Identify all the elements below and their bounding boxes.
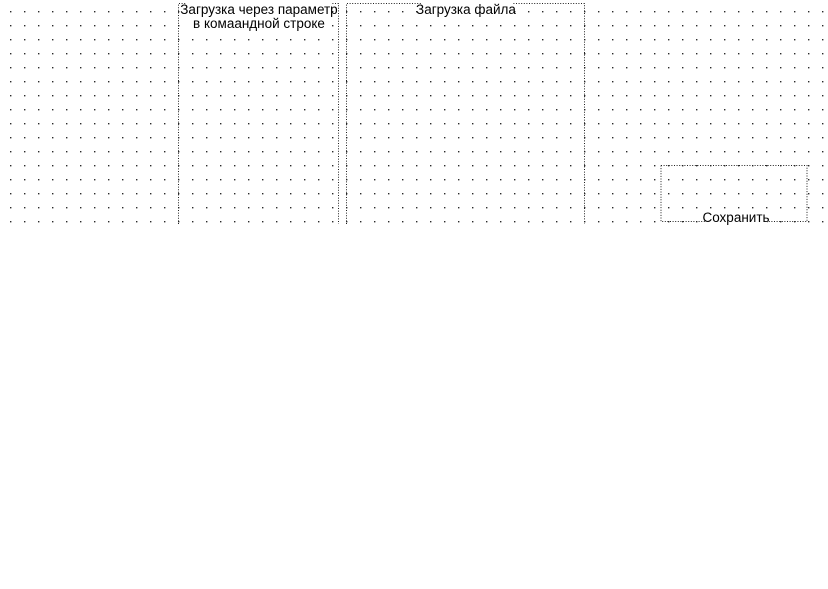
dashed group box 1 [179,1,339,224]
svg-text:в комаандной строке: в комаандной строке [193,16,325,31]
svg-text:Сохранить: Сохранить [702,210,769,225]
dashed group box 2 [347,1,585,224]
dashed group box "Сохранить" [661,166,807,225]
dotted grid of schema editor (top area) [0,0,828,224]
svg-text:Загрузка файла: Загрузка файла [416,2,516,17]
svg-text:Загрузка через параметр: Загрузка через параметр [180,2,337,17]
